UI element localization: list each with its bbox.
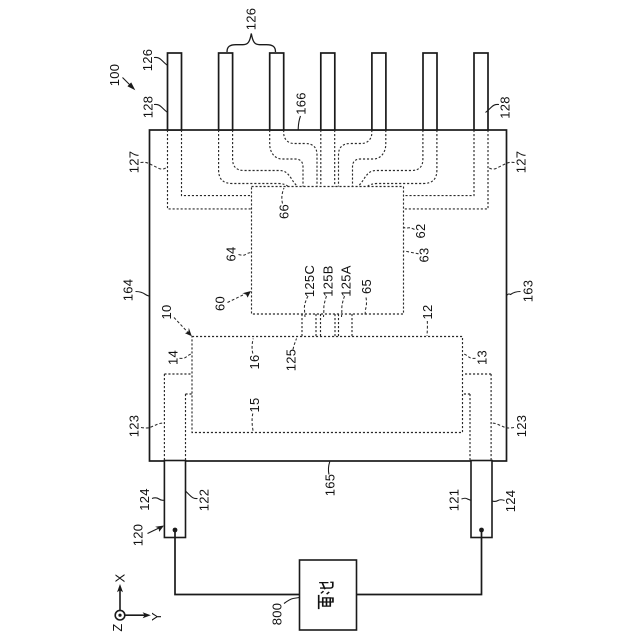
battery kanji 電池 (rotated) — [319, 582, 333, 609]
leader label 13 (dashed) — [463, 354, 475, 359]
svg-text:14: 14 — [166, 350, 181, 365]
leader label 64 (dashed) — [239, 253, 252, 256]
svg-text:Y: Y — [149, 612, 164, 621]
leader label 16 (dashed) — [252, 339, 253, 354]
svg-text:123: 123 — [514, 415, 529, 438]
arrowhead label 10 — [185, 328, 192, 337]
leader label 163 — [507, 292, 521, 297]
leader label 63 (dashed) — [404, 251, 419, 254]
curly brace for 126 group — [227, 34, 276, 53]
svg-text:166: 166 — [294, 92, 309, 115]
svg-text:164: 164 — [121, 279, 136, 302]
terminal pin 126 #1 — [168, 53, 182, 130]
leader label 125B (dashed) — [324, 296, 327, 317]
terminal pin 126 #6 — [423, 53, 437, 130]
leader label 128 left — [154, 104, 168, 112]
svg-text:Z: Z — [110, 623, 125, 631]
Y axis arrow — [125, 614, 146, 616]
leader label 65 (dashed) — [365, 298, 366, 316]
terminal pin 126 #3 — [270, 53, 284, 130]
leader label 66 (dashed) — [282, 188, 284, 204]
leader label 122 — [186, 491, 198, 499]
leader label 127 right (dashed) — [489, 162, 515, 169]
leader label 124 left — [152, 498, 165, 500]
lead trace pin3 right edge — [284, 130, 317, 187]
leader label 127 left (dashed) — [141, 162, 167, 169]
package body 162 (main solid rectangle) — [150, 130, 507, 461]
lead trace pin2 right edge — [233, 130, 298, 187]
terminal pin 126 #7 — [474, 53, 488, 130]
terminal pin 126 #4 — [321, 53, 335, 130]
junction dot left tab — [173, 528, 178, 533]
svg-text:X: X — [113, 573, 128, 582]
svg-text:10: 10 — [159, 304, 174, 319]
leader label 12 (dashed) — [426, 321, 428, 336]
leader label 120 arrow — [148, 528, 161, 534]
svg-text:15: 15 — [247, 397, 262, 412]
svg-text:16: 16 — [247, 354, 262, 369]
svg-text:125B: 125B — [320, 265, 335, 297]
svg-text:127: 127 — [127, 151, 142, 174]
svg-text:100: 100 — [107, 64, 122, 87]
svg-text:125: 125 — [284, 349, 299, 372]
junction dot right tab — [479, 528, 484, 533]
wire from right tab to battery — [357, 530, 482, 595]
svg-text:128: 128 — [141, 96, 156, 119]
power terminal tab 121 (bottom right) — [471, 461, 492, 538]
svg-text:126: 126 — [244, 8, 259, 31]
wire from left tab to battery — [175, 530, 300, 595]
svg-text:122: 122 — [197, 489, 212, 512]
leader label 800 — [284, 598, 299, 604]
svg-text:127: 127 — [514, 151, 529, 174]
leader label 125C (dashed) — [304, 296, 308, 317]
terminal pin 126 #2 — [219, 53, 233, 130]
arrowhead label 120 — [155, 526, 164, 532]
internal lead traces 166 right half (mirror) — [335, 130, 491, 461]
svg-text:12: 12 — [420, 304, 435, 319]
leader label 60 arrow line (dashed) — [228, 293, 248, 303]
lead trace pin1 left edge — [168, 130, 252, 209]
svg-text:66: 66 — [277, 204, 292, 219]
svg-text:124: 124 — [503, 490, 518, 513]
svg-text:125A: 125A — [339, 265, 354, 297]
arrowhead label 100 — [127, 82, 135, 90]
capacitor body 10 (dashed box) — [192, 337, 463, 433]
svg-text:163: 163 — [521, 280, 536, 303]
leader label 121 — [462, 498, 472, 500]
leader label 128 right — [486, 104, 500, 112]
leader label 164 — [136, 292, 150, 297]
leader label 100 arrow — [123, 78, 132, 87]
internal lead traces 166 left half — [164, 130, 320, 461]
svg-text:60: 60 — [213, 296, 228, 311]
leader label 123 left (dashed) — [141, 423, 164, 428]
leader label 126 left — [154, 57, 168, 65]
leader label 14 (dashed) — [180, 354, 192, 359]
svg-text:63: 63 — [417, 247, 432, 262]
terminal pin 126 #5 — [372, 53, 386, 130]
leader label 10 arrow line (dashed) — [174, 318, 188, 333]
svg-text:800: 800 — [270, 603, 285, 626]
leader label 166 — [298, 116, 300, 130]
arrowhead label 60 — [242, 291, 251, 298]
svg-text:121: 121 — [447, 489, 462, 512]
battery box 800 — [300, 560, 357, 630]
coordinate axes origin (Z out of page) — [115, 610, 125, 620]
svg-text:126: 126 — [140, 49, 155, 72]
svg-text:65: 65 — [359, 279, 374, 294]
svg-text:125C: 125C — [302, 265, 317, 297]
leader label 15 (dashed) — [252, 414, 253, 432]
svg-text:123: 123 — [127, 415, 142, 438]
leader label 123 right (dashed) — [491, 423, 514, 428]
leg 125C — [302, 314, 316, 337]
lead trace pin4 left edge — [320, 130, 322, 187]
svg-text:124: 124 — [137, 488, 152, 511]
svg-text:64: 64 — [224, 246, 239, 261]
svg-text:128: 128 — [498, 96, 513, 119]
svg-text:120: 120 — [131, 524, 146, 547]
lead trace pin3 left edge — [270, 130, 303, 187]
power terminal tab 122 (bottom left) — [164, 461, 185, 538]
hidden outline group: die pad, electrode body, internal leads (dashed) — [164, 130, 491, 461]
hidden tab outline 123 left — [164, 374, 192, 461]
lead trace pin1 right edge — [182, 130, 252, 196]
svg-text:165: 165 — [323, 474, 338, 497]
leg 125B — [321, 314, 336, 337]
leader label 124 right — [492, 500, 505, 502]
leader label 125A (dashed) — [342, 296, 345, 317]
leader label 165 — [328, 462, 329, 475]
svg-text:62: 62 — [413, 223, 428, 238]
svg-text:13: 13 — [475, 350, 490, 365]
X axis arrow — [119, 590, 121, 611]
lead trace pin2 left edge — [219, 130, 288, 187]
leader label 125 (dashed) — [293, 339, 297, 350]
semiconductor chip 60 (dashed box) — [252, 187, 404, 315]
leader label 62 (dashed) — [404, 227, 415, 230]
leg 125A — [339, 314, 353, 337]
